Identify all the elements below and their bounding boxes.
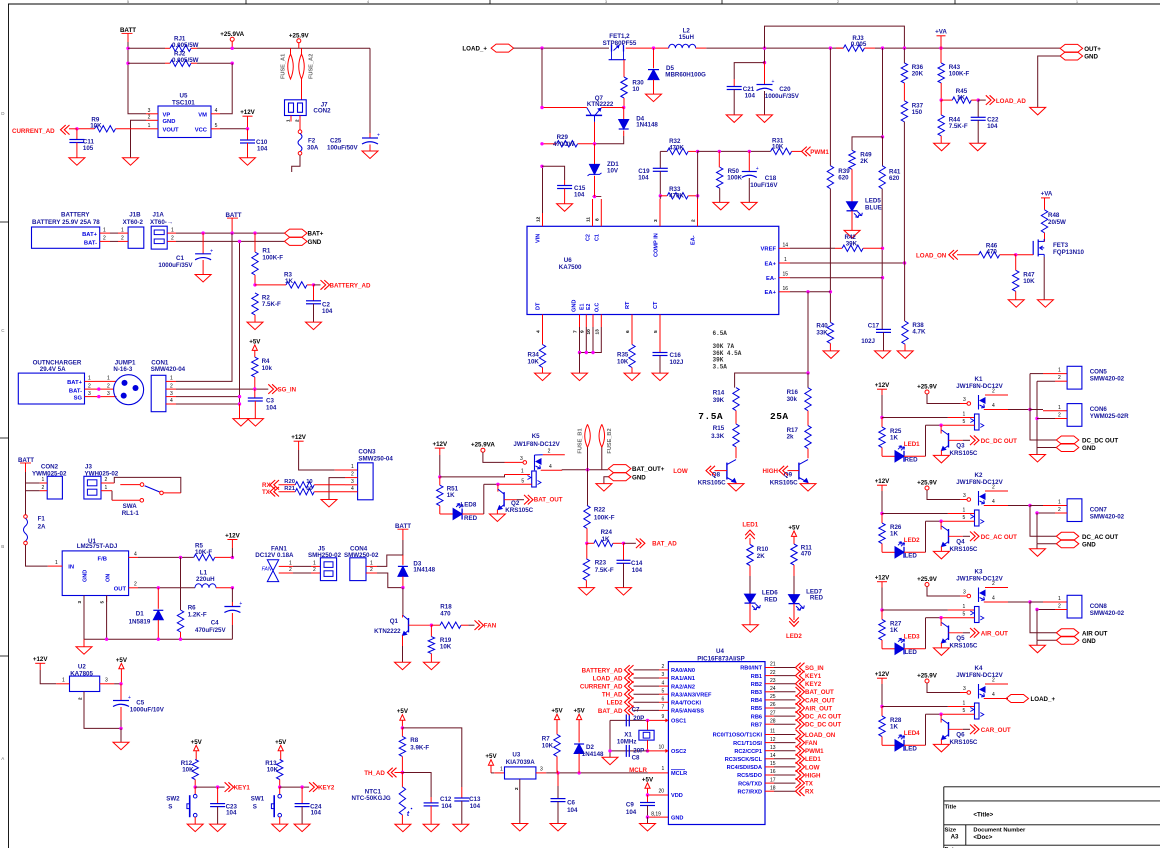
wire LED to pin5 [904, 648, 926, 650]
svg-text:TH_AD: TH_AD [364, 770, 385, 777]
svg-text:C8: C8 [632, 755, 640, 762]
svg-text:HIGH: HIGH [805, 772, 821, 779]
ground U1 rail [83, 639, 85, 647]
svg-text:NTC-50KGJG: NTC-50KGJG [352, 795, 391, 802]
svg-text:2: 2 [121, 236, 124, 242]
wire rail to RJ3 [706, 47, 843, 49]
svg-text:2K: 2K [757, 553, 765, 560]
svg-text:SMW420-02: SMW420-02 [1090, 610, 1125, 617]
svg-text:KEY1: KEY1 [234, 785, 251, 792]
svg-text:16: 16 [783, 286, 789, 292]
resistor R49 [849, 150, 855, 169]
svg-text:2: 2 [78, 697, 83, 700]
svg-text:C16: C16 [670, 352, 682, 359]
inductor L1 [195, 584, 216, 588]
connector CON3 SMW250-04 [358, 463, 374, 500]
svg-text:2: 2 [148, 115, 151, 121]
svg-text:1: 1 [370, 560, 373, 566]
ground R2 [247, 322, 263, 330]
off-page BAT_AD [624, 542, 636, 544]
junction OSC1/X1 [646, 719, 649, 722]
svg-text:5: 5 [653, 330, 659, 333]
svg-text:2: 2 [992, 678, 995, 684]
K3 coil pin2 [985, 587, 1008, 589]
svg-text:RA5/AN4/SS: RA5/AN4/SS [671, 709, 704, 715]
svg-text:LOAD_ON: LOAD_ON [916, 252, 947, 259]
svg-text:1: 1 [963, 701, 966, 707]
port GND (dcac) [1037, 543, 1056, 545]
U6 pin 4 DT [542, 315, 544, 328]
svg-text:F2: F2 [308, 138, 316, 145]
wire main rail [514, 47, 609, 49]
U5 pin stubs [146, 113, 158, 115]
svg-text:10K: 10K [617, 358, 629, 365]
ground NTC1 [395, 824, 411, 832]
wire U5 pin1 left [116, 128, 147, 130]
junction BATT/wire2 [126, 62, 129, 65]
wire key row [195, 786, 224, 788]
junction TH_AD [401, 771, 404, 774]
svg-text:102J: 102J [670, 359, 684, 366]
svg-text:VDD: VDD [671, 793, 683, 799]
svg-text:470K: 470K [669, 144, 684, 151]
resistor R11 [791, 544, 797, 565]
svg-text:R14: R14 [713, 390, 725, 397]
junction C1 [201, 231, 204, 234]
svg-text:104: 104 [626, 809, 637, 816]
capacitor C6 [557, 773, 559, 786]
wire R41 vertical [882, 48, 884, 137]
K3 contact [975, 607, 980, 623]
svg-text:RED: RED [905, 457, 919, 464]
off-page CAR_OUT [796, 695, 805, 705]
svg-text:R15: R15 [713, 425, 725, 432]
transistor Q8 KRS105C [726, 463, 728, 480]
svg-text:<Doc>: <Doc> [973, 834, 992, 841]
K4 coil pin4 [984, 698, 1008, 700]
wire pin1 [882, 609, 948, 611]
off-page TX [796, 778, 805, 788]
svg-text:+5V: +5V [275, 739, 287, 746]
wire R16-R17 [807, 411, 809, 426]
ground C15 [557, 204, 573, 212]
svg-text:R16: R16 [787, 389, 799, 396]
svg-text:2: 2 [370, 567, 373, 573]
svg-text:14: 14 [783, 243, 789, 249]
svg-text:+5V: +5V [551, 708, 563, 715]
junction C19/R33/COMPIN [659, 194, 662, 197]
K3 coil pin4 [984, 601, 1008, 603]
svg-text:RED: RED [464, 515, 478, 522]
ground Q9 [807, 483, 809, 484]
junction OSC2/X1 [646, 749, 649, 752]
svg-text:+5V: +5V [249, 338, 261, 345]
svg-text:+25.9V: +25.9V [917, 480, 938, 487]
svg-text:LED1: LED1 [904, 441, 920, 448]
svg-text:R22: R22 [594, 507, 606, 514]
svg-text:MCLR: MCLR [671, 771, 687, 777]
svg-text:RB6: RB6 [751, 714, 762, 720]
svg-text:C13: C13 [469, 796, 481, 803]
svg-text:104: 104 [226, 810, 237, 817]
svg-text:EA-: EA- [766, 276, 776, 282]
resistor R30 [621, 77, 627, 98]
svg-text:10MHz: 10MHz [617, 739, 637, 746]
svg-text:JW1F8N-DC12V: JW1F8N-DC12V [513, 441, 560, 448]
svg-text:LOAD_+: LOAD_+ [1031, 696, 1056, 703]
power +VA stub [940, 48, 942, 63]
junction R42 [881, 247, 884, 250]
resistor R35 [629, 345, 635, 368]
svg-text:4: 4 [992, 596, 995, 602]
junction Q3 collector [939, 424, 942, 427]
off-page LOAD_ON [796, 730, 805, 740]
svg-text:3.9K-F: 3.9K-F [410, 744, 429, 751]
svg-text:104: 104 [470, 803, 481, 810]
off-page PWM1 [802, 147, 811, 157]
svg-text:2: 2 [1058, 604, 1061, 610]
switch SW1 [279, 787, 281, 794]
svg-text:KEY2: KEY2 [805, 681, 822, 688]
svg-text:KTN2222: KTN2222 [587, 101, 614, 108]
svg-text:U6: U6 [564, 257, 572, 264]
svg-text:470: 470 [440, 610, 451, 617]
junction K1 pin1 [880, 416, 883, 419]
svg-text:<Title>: <Title> [973, 812, 993, 819]
svg-text:KIA7039A: KIA7039A [506, 759, 535, 766]
capacitor C5 [120, 684, 122, 701]
svg-text:SMH250-02: SMH250-02 [308, 552, 342, 559]
svg-text:LED8: LED8 [461, 502, 477, 509]
capacitor C25 [369, 48, 371, 133]
wire +12V to K5 pin1 [440, 475, 505, 477]
ground U2 [120, 728, 122, 742]
wire U5 pin2 to gnd [131, 120, 147, 157]
U6 pin 16 EA+ [779, 291, 790, 293]
svg-text:FUSE_A2: FUSE_A2 [309, 54, 315, 79]
ground dcac [1036, 544, 1038, 549]
svg-text:20P: 20P [633, 715, 644, 722]
svg-text:+5V: +5V [116, 657, 128, 664]
resistor R29 [542, 143, 557, 145]
svg-text:0.005/5W: 0.005/5W [172, 57, 199, 64]
wires to JUMP1 [95, 380, 117, 382]
K4 contact [975, 703, 980, 719]
junction R9/C11 [75, 127, 78, 130]
svg-text:RC0/T1OSO/T1CKI: RC0/T1OSO/T1CKI [713, 733, 763, 739]
svg-text:SG_IN: SG_IN [805, 665, 824, 672]
svg-text:S: S [168, 803, 172, 810]
svg-text:1: 1 [521, 468, 524, 474]
junction D3/Q1 [401, 586, 404, 589]
svg-text:BLUE: BLUE [865, 204, 882, 211]
transistor Q5 KRS105C [940, 618, 942, 626]
svg-text:39K: 39K [846, 240, 858, 247]
svg-text:A: A [1, 756, 4, 761]
port DC_AC OUT [1030, 506, 1056, 537]
svg-text:2: 2 [351, 472, 354, 478]
resistor R4 [252, 357, 258, 377]
svg-text:RB1: RB1 [751, 674, 762, 680]
svg-text:10: 10 [306, 486, 312, 492]
svg-text:RA1/AN1: RA1/AN1 [671, 676, 695, 682]
svg-text:D1: D1 [136, 611, 144, 618]
resistor R5 [194, 554, 215, 560]
svg-text:+5V: +5V [191, 739, 203, 746]
svg-text:DC12V 0.18A: DC12V 0.18A [255, 552, 294, 559]
svg-text:KEY2: KEY2 [318, 785, 335, 792]
svg-text:+: + [210, 248, 213, 254]
ground C10 [240, 158, 256, 166]
ground bat out [596, 484, 612, 492]
resistor R50 [718, 151, 720, 167]
off-page CAR_OUT [949, 728, 963, 730]
svg-text:C18: C18 [765, 175, 777, 182]
svg-text:220uH: 220uH [196, 576, 215, 583]
wire R39 vertical [829, 48, 831, 166]
ground R44 [934, 143, 950, 151]
ground C20 [757, 115, 773, 123]
wire FUSE_A2 to J7 [301, 79, 303, 100]
connector CON2 YWM025-02 [47, 476, 62, 499]
resistor R15 [733, 424, 739, 447]
resistor R24 [587, 542, 594, 544]
thermistor NTC1 [401, 773, 403, 787]
svg-text:2: 2 [992, 389, 995, 395]
junction R7 [556, 771, 559, 774]
svg-text:1.2K-F: 1.2K-F [188, 612, 207, 619]
svg-text:K4: K4 [975, 665, 983, 672]
capacitor C14 [623, 543, 625, 560]
svg-text:+12V: +12V [875, 575, 890, 582]
resistor R2 [252, 293, 258, 315]
junction jump pins [97, 387, 100, 390]
svg-text:Q3: Q3 [956, 443, 965, 450]
ground osc [602, 757, 618, 765]
wire pin1 [882, 513, 948, 515]
svg-text:+25.9VA: +25.9VA [471, 442, 495, 449]
svg-text:K5: K5 [532, 433, 540, 440]
FAN1 pin stubs [279, 565, 293, 567]
wire R39 to row16 [829, 189, 831, 323]
svg-text:1: 1 [289, 560, 292, 566]
ground U3 [512, 824, 528, 832]
wire key row [280, 786, 309, 788]
port DC_DC OUT [1030, 410, 1056, 441]
wire CON1 pin2 SG_IN [176, 388, 268, 390]
resistor R20 [279, 484, 296, 486]
port BAT+ [285, 229, 308, 237]
svg-text:FAN: FAN [262, 566, 272, 572]
svg-text:B: B [1, 544, 4, 549]
transistor FET3 FQP13N10 [1032, 241, 1034, 255]
ground U5 pin2 [123, 158, 139, 166]
off-page PWM1 [796, 746, 805, 756]
svg-text:4: 4 [662, 680, 665, 686]
svg-text:470: 470 [987, 248, 998, 255]
U6 pin 12 VIN [542, 213, 544, 226]
svg-text:C1: C1 [176, 255, 184, 262]
port LOAD_+ (K4 out) [1006, 698, 1008, 700]
ground Q6 [940, 740, 942, 745]
svg-text:LED3: LED3 [904, 634, 920, 641]
svg-text:21: 21 [770, 662, 776, 668]
svg-text:CAR_OUT: CAR_OUT [981, 727, 1011, 734]
svg-text:KRS105C: KRS105C [950, 643, 978, 650]
resistor R45 [941, 99, 952, 101]
resistor R8 [401, 728, 403, 737]
wire CON4 pin1 to BATT [377, 540, 403, 566]
diode D3 1N4148 [402, 555, 404, 565]
wire CON7 pin2 / gnd net [1055, 512, 1067, 514]
svg-text:2: 2 [103, 236, 106, 242]
svg-text:R29: R29 [557, 134, 569, 141]
svg-text:2: 2 [134, 582, 137, 588]
U6 pin 1 EA+ [779, 262, 790, 264]
svg-text:+VA: +VA [935, 29, 947, 36]
wire CON2 pin2 [26, 490, 40, 492]
BATTERY pin stubs [100, 232, 110, 234]
svg-text:1N5819: 1N5819 [129, 619, 151, 626]
port AIR OUT [1030, 602, 1056, 633]
svg-text:R8: R8 [410, 737, 418, 744]
wire K1 pin4 to CON5/CON6 [1008, 409, 1030, 411]
connector JUMP1 N-16-3 [114, 375, 144, 405]
svg-text:C12: C12 [440, 796, 452, 803]
svg-text:FUSE_A1: FUSE_A1 [281, 54, 287, 79]
capacitor C21/C20 tap [763, 61, 766, 64]
svg-text:JW1F8N-DC12V: JW1F8N-DC12V [956, 576, 1003, 583]
svg-text:FUSE_B2: FUSE_B2 [607, 428, 613, 453]
svg-text:OSC1: OSC1 [671, 719, 686, 725]
wire kelvin sense [765, 26, 905, 48]
transistor Q3 KRS105C [940, 425, 942, 433]
svg-text:+: + [239, 601, 242, 607]
ground R47 [1008, 300, 1024, 308]
wire rail RJ3 to out [875, 47, 1060, 49]
connector J3 YWH025-02 [84, 476, 101, 499]
wire FET3 source to gnd [1043, 257, 1045, 300]
junction Q1 base/R18/R19 [430, 624, 433, 627]
svg-text:3: 3 [170, 391, 173, 397]
svg-text:10: 10 [586, 329, 592, 335]
junction R24/C14 [622, 542, 625, 545]
resistor R22 [584, 505, 590, 528]
IC U4 PIC16F873AI/SP [668, 662, 765, 825]
svg-text:7.5A: 7.5A [698, 411, 723, 422]
ground C16 [652, 373, 668, 381]
svg-text:CURRENT_AD: CURRENT_AD [580, 684, 623, 691]
ground C22 [970, 143, 986, 151]
svg-text:100uF/50V: 100uF/50V [327, 145, 358, 152]
svg-text:DC_AC OUT: DC_AC OUT [981, 534, 1017, 541]
svg-text:BAT+: BAT+ [82, 232, 97, 238]
connector J1A [151, 226, 167, 249]
svg-text:IN: IN [68, 565, 74, 571]
junction R1 [253, 231, 256, 234]
svg-text:13: 13 [770, 745, 776, 751]
svg-text:15uH: 15uH [679, 34, 695, 41]
IC U5 TSC101 [158, 106, 211, 138]
svg-text:FAN: FAN [805, 740, 818, 747]
U6 gnd bus pins 7 9 10 13 [579, 315, 581, 328]
port GND (battery) [285, 237, 308, 245]
svg-text:VP: VP [163, 112, 171, 118]
svg-text:10: 10 [632, 86, 639, 93]
ground BAT- drop [239, 404, 241, 419]
svg-text:COMP IN: COMP IN [653, 233, 659, 257]
ground SW2 [187, 824, 203, 832]
svg-text:4: 4 [992, 692, 995, 698]
svg-text:X1: X1 [624, 731, 632, 738]
port OUT+ [1060, 44, 1083, 52]
svg-text:YWM025-02: YWM025-02 [32, 471, 67, 478]
junction R50 [718, 150, 721, 153]
wire osc gnd drop [609, 720, 611, 757]
svg-text:25A: 25A [770, 411, 789, 422]
svg-text:RB5: RB5 [751, 706, 762, 712]
wire J7 pin stubs [290, 116, 292, 122]
svg-text:C6: C6 [567, 800, 575, 807]
junction D5 [652, 46, 655, 49]
svg-text:R23: R23 [595, 559, 607, 566]
junction K4 pin1 [880, 705, 883, 708]
svg-text:K2: K2 [975, 472, 983, 479]
svg-text:20P: 20P [633, 747, 644, 754]
svg-text:620: 620 [889, 175, 900, 182]
svg-text:OSC2: OSC2 [671, 749, 686, 755]
svg-text:1N4148: 1N4148 [636, 122, 658, 129]
svg-text:C4: C4 [211, 620, 219, 627]
svg-text:1000uF/10V: 1000uF/10V [130, 707, 165, 714]
svg-text:RED: RED [764, 596, 778, 603]
wire Q7 emitter to ZD1 [594, 122, 596, 144]
ground R35 [624, 373, 640, 381]
svg-text:R4: R4 [262, 358, 270, 365]
ground R19 [423, 662, 439, 670]
svg-text:C1: C1 [595, 234, 601, 241]
wire K3 pin4 to CON8 [1008, 601, 1030, 603]
junction R1/R2/R3 [253, 283, 256, 286]
svg-text:7.5K-F: 7.5K-F [949, 123, 968, 130]
svg-text:AIR_OUT: AIR_OUT [981, 630, 1008, 637]
svg-text:AIR_OUT: AIR_OUT [805, 705, 832, 712]
svg-text:Q2: Q2 [511, 500, 520, 507]
svg-text:CON6: CON6 [1090, 406, 1108, 413]
svg-text:+25.9V: +25.9V [917, 384, 938, 391]
wire VDD [648, 794, 669, 796]
svg-text:104: 104 [257, 145, 268, 152]
svg-text:10K: 10K [542, 743, 554, 750]
wire rail after FET [626, 47, 669, 49]
svg-text:1: 1 [121, 227, 124, 233]
svg-text:100K: 100K [727, 175, 742, 182]
svg-text:RC2/CCP1: RC2/CCP1 [734, 749, 762, 755]
svg-text:470K: 470K [669, 193, 684, 200]
svg-text:24: 24 [770, 686, 776, 692]
transistor Q4 KRS105C [940, 521, 942, 529]
svg-text:5: 5 [963, 708, 966, 714]
resistor R18 [431, 624, 440, 626]
svg-text:GND: GND [1082, 638, 1096, 645]
svg-text:GND: GND [1084, 53, 1098, 60]
svg-text:JW1F8N-DC12V: JW1F8N-DC12V [956, 672, 1003, 679]
svg-text:4.7K: 4.7K [912, 329, 926, 336]
svg-text:Q8: Q8 [712, 471, 721, 478]
K2 coil pin4 [984, 505, 1008, 507]
U6 pin 15 EA- [779, 277, 790, 279]
wire LED to pin5 [904, 455, 926, 457]
